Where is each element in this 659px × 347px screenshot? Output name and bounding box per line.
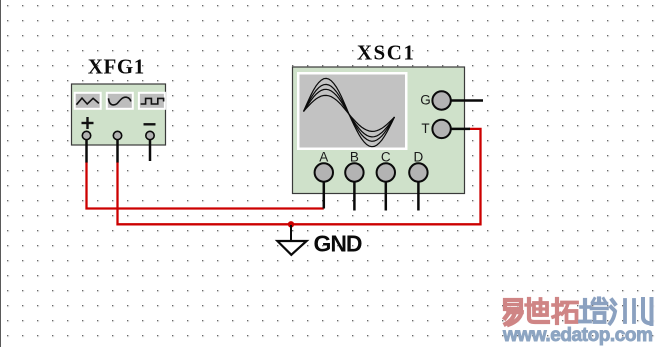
logo char di (526, 299, 548, 322)
XFG1 plus terminal stub (85, 138, 88, 163)
XFG1 body (72, 84, 166, 145)
XSC1 screen trace 3 (304, 89, 395, 137)
wire W1: XFG1 plus terminal to XSC1 channel A (87, 162, 324, 209)
svg-text:GND: GND (314, 231, 363, 257)
svg-text:www.edatop.com: www.edatop.com (502, 325, 653, 346)
XFG1 plus sign (82, 117, 94, 129)
XFG1 plus terminal pin (82, 131, 90, 139)
XSC1 trigger terminal pin (432, 120, 450, 138)
logo char xun (610, 299, 652, 324)
svg-text:XFG1: XFG1 (88, 55, 145, 79)
XSC1 screen trace 4 (304, 95, 395, 131)
logo char pei (580, 299, 607, 323)
svg-text:T: T (421, 121, 429, 136)
XSC1 channel B stub (353, 180, 356, 211)
XFG1 minus terminal pin (146, 131, 154, 139)
XSC1 body (293, 67, 465, 194)
XFG1 triangle-wave button (74, 92, 102, 110)
svg-text:C: C (381, 149, 391, 164)
svg-text:D: D (414, 149, 424, 164)
XSC1 channel C stub (385, 180, 388, 211)
XSC1 channel D stub (417, 180, 420, 211)
XSC1 screen trace 1 (304, 78, 395, 146)
junction on net 0 (288, 221, 294, 227)
XSC1 channel C pin (377, 163, 395, 181)
left page edge line (0, 0, 1, 347)
watermark logo yi di tuo pei xun (505, 299, 652, 325)
svg-text:A: A (319, 149, 328, 164)
XFG1 sine-wave button (106, 92, 134, 110)
XSC1 channel D pin (409, 163, 427, 181)
XSC1 ground terminal pin (432, 91, 450, 109)
XSC1 channel B pin (345, 163, 363, 181)
XSC1 channel A stub (323, 180, 326, 209)
logo char tuo (553, 299, 577, 323)
svg-text:G: G (420, 93, 431, 108)
XFG1 minus sign (144, 123, 156, 125)
XSC1 screen bezel (297, 72, 408, 150)
XFG1 minus terminal stub (149, 138, 152, 161)
logo char yi (505, 300, 522, 325)
XFG1 square-wave button (138, 92, 166, 110)
XFG1 common terminal pin (113, 131, 121, 139)
XFG1 common terminal stub (116, 138, 119, 163)
oscilloscope XSC1 (293, 41, 484, 211)
XSC1 ground terminal stub G (450, 99, 483, 102)
XSC1 trigger terminal stub T (450, 128, 470, 131)
wire W2: XFG1 common terminal to ground junction and XSC1 trigger (118, 129, 481, 224)
svg-text:B: B (350, 149, 359, 164)
function generator XFG1 (72, 55, 166, 163)
XSC1 channel A pin (315, 163, 333, 181)
XSC1 screen (300, 75, 406, 148)
ground symbol (277, 225, 306, 255)
XSC1 screen trace 2 (304, 84, 395, 141)
